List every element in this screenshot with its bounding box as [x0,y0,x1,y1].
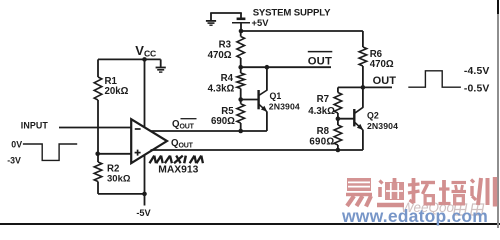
op-amp minus sign [135,128,141,130]
svg-text:R4: R4 [221,73,234,84]
node R1/R2 (threshold) [95,152,100,157]
resistor R3 [237,31,245,67]
svg-text:R8: R8 [317,126,330,137]
svg-text:690Ω: 690Ω [309,137,334,148]
svg-text:R3: R3 [219,39,232,50]
svg-text:+5V: +5V [252,17,270,28]
node Q1 collector [265,65,270,70]
wire QOUT [151,149,363,151]
watermark blue www.edatop.com [342,206,488,227]
wire Vcc horizontal [98,58,161,60]
svg-text:470Ω: 470Ω [208,50,232,61]
node OUT [361,85,366,90]
node R4/R5 (Q1 base) [238,97,243,102]
node R5 bottom on QOUTbar line [238,129,243,134]
label QOUTbar [172,119,197,131]
svg-text:QOUT: QOUT [171,138,194,149]
op-amp plus sign [135,150,141,156]
wire INPUT [59,127,132,129]
node -5V [142,192,147,197]
svg-text:Q1: Q1 [270,91,282,101]
ground (system supply) [206,13,216,25]
svg-text:-0.5V: -0.5V [464,83,490,94]
svg-text:OUT: OUT [308,55,332,67]
transistor Q1 2N3904 [241,67,268,131]
transistor Q2 2N3904 [338,87,363,150]
svg-text:MAX913: MAX913 [158,164,198,175]
svg-text:20kΩ: 20kΩ [105,86,129,97]
wire OUT stub [363,86,392,88]
input waveform [23,144,77,160]
svg-text:2N3904: 2N3904 [269,101,300,111]
battery +5V supply [232,13,250,31]
ground (Vcc) [156,59,166,72]
node +5V rail junction [239,29,244,34]
right border line [497,0,499,14]
svg-text:OUT: OUT [373,75,397,87]
svg-text:-4.5V: -4.5V [464,66,490,77]
node R3/R4 [238,65,243,70]
bottom border line [0,223,500,225]
svg-text:VCC: VCC [135,43,156,58]
op-amp U1 MAX913 comparator triangle [131,119,167,163]
svg-text:-5V: -5V [136,208,151,218]
output waveform [408,71,461,87]
svg-text:Q2: Q2 [367,110,379,120]
watermark red CJK 易迪拓培训 [344,176,500,210]
wire OUTbar stub [241,66,331,68]
watermark gray WeeQoo [401,200,454,215]
svg-text:690Ω: 690Ω [211,116,235,127]
node Vcc [142,57,147,62]
label OUT-bar [308,52,333,68]
wire op-amp V- to -5V [144,155,146,206]
wire Vcc to op-amp V+ [144,59,146,128]
label MAXIM logo [150,156,203,164]
svg-text:INPUT: INPUT [21,121,49,131]
resistor R7 [334,87,342,118]
resistor R8 [334,119,342,150]
svg-text:4.3kΩ: 4.3kΩ [308,106,335,117]
resistor R1 [94,59,102,153]
svg-text:QOUT: QOUT [172,119,195,130]
wire OUT-node to R7 [338,86,363,88]
node R8 bottom on QOUT line [336,148,341,153]
resistor R4 [237,67,245,99]
svg-text:470Ω: 470Ω [370,59,394,70]
wire QOUTbar [150,130,267,132]
wire ground-to-battery [210,12,242,14]
resistor R5 [237,100,245,132]
resistor R2 [94,154,102,194]
wire R2 bottom to -5V node [98,193,145,195]
svg-text:0V: 0V [11,140,22,150]
wire +5V rail [241,30,363,32]
wire threshold to plus input [98,153,132,155]
svg-text:4.3kΩ: 4.3kΩ [208,83,235,94]
node R7/R8 (Q2 base) [336,116,341,121]
svg-text:30kΩ: 30kΩ [107,174,131,185]
resistor R6 [359,31,367,87]
svg-text:R7: R7 [317,94,329,105]
svg-text:2N3904: 2N3904 [367,121,398,131]
svg-text:-3V: -3V [7,155,21,165]
